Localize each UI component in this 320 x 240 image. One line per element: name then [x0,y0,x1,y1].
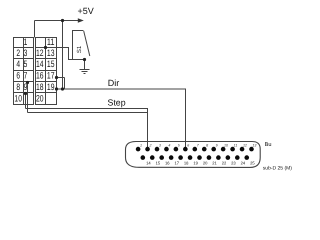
junction node pin9 [24,92,27,95]
svg-text:20: 20 [203,161,208,166]
wire +5V vertical drop [62,21,64,90]
svg-text:13: 13 [47,48,55,58]
wire pin13 to switch bottom [46,48,85,60]
junction node Dir drop [61,87,64,90]
sub-D pin numbers row 2 [146,161,255,166]
svg-text:1: 1 [24,37,28,47]
svg-text:Dir: Dir [108,78,120,88]
svg-text:19: 19 [47,82,55,92]
svg-text:7: 7 [24,71,28,81]
svg-text:5: 5 [24,59,28,69]
svg-text:6: 6 [187,144,189,148]
wire pin7 lower run [28,112,148,114]
connector J1 20-pin header table left block [14,38,34,105]
svg-text:18: 18 [36,82,44,92]
junction node +5V rail [61,19,64,22]
svg-text:4: 4 [16,59,20,69]
svg-text:16: 16 [36,71,44,81]
wire Step net [26,109,148,149]
svg-text:15: 15 [47,59,55,69]
svg-text:12: 12 [243,144,247,148]
wire pin1 to +5V rail [34,21,36,38]
junction node pin7 [26,81,29,84]
sub-D pins row 2 [141,155,250,160]
svg-text:2: 2 [148,144,151,148]
svg-text:11: 11 [234,144,238,148]
svg-text:4: 4 [168,144,170,148]
svg-text:16: 16 [165,161,170,166]
junction node pin17 [55,76,58,79]
wire switch bottom to ground [84,60,86,70]
svg-text:18: 18 [184,161,189,166]
svg-text:8: 8 [206,144,208,148]
switch S1 blade [84,31,90,56]
wire pin7 drop [27,83,29,113]
svg-text:12: 12 [36,48,44,58]
svg-text:17: 17 [174,161,179,166]
switch S1 actuator bracket [73,31,84,60]
junction node pin19 [55,87,58,90]
svg-text:3: 3 [24,48,28,58]
svg-text:13: 13 [252,144,256,148]
svg-text:6: 6 [16,71,20,81]
svg-text:2: 2 [16,48,20,58]
wire pin9 drop [25,94,27,109]
svg-text:11: 11 [47,37,55,47]
junction node pin13 [44,46,47,49]
svg-text:10: 10 [224,144,228,148]
sub-D pin numbers row 1 [140,144,256,148]
connector X1 sub-D 25 outline [126,142,261,168]
connector J1 20-pin header table right block [36,38,57,105]
wire Dir net [57,89,186,148]
svg-text:1: 1 [140,144,142,148]
svg-text:S1: S1 [76,45,83,53]
svg-text:8: 8 [16,82,20,92]
svg-text:Bu: Bu [265,142,272,148]
ground symbol [80,70,90,74]
svg-text:14: 14 [146,161,151,166]
connector J1 pin numbers 1-20 [14,37,54,103]
svg-text:24: 24 [241,161,246,166]
svg-text:14: 14 [36,59,44,69]
svg-text:22: 22 [222,161,227,166]
svg-text:9: 9 [24,82,28,92]
wire +5V rail [35,20,80,22]
svg-text:20: 20 [36,94,44,104]
svg-text:17: 17 [47,71,55,81]
svg-text:Step: Step [108,98,126,108]
svg-text:10: 10 [14,94,22,104]
svg-text:15: 15 [156,161,161,166]
wire pin17 stub [57,77,65,79]
svg-text:21: 21 [212,161,217,166]
svg-text:+5V: +5V [78,6,94,16]
svg-text:19: 19 [193,161,198,166]
svg-text:sub-D 25 (M): sub-D 25 (M) [263,165,293,171]
svg-text:25: 25 [250,161,255,166]
svg-text:5: 5 [178,144,180,148]
svg-text:3: 3 [159,144,161,148]
svg-text:23: 23 [231,161,236,166]
svg-text:9: 9 [216,144,218,148]
junction node switch bottom [83,58,86,61]
sub-D pins row 1 [136,147,254,152]
+5V arrow [78,18,84,23]
